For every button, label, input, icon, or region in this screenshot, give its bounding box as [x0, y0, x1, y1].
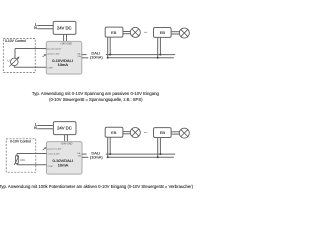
- svg-text:Typ. Anwendung mit 0-10V Spann: Typ. Anwendung mit 0-10V Spannung am pas…: [32, 91, 160, 96]
- svg-text:Typ. Anwendung mit 100k Potent: Typ. Anwendung mit 100k Potentiometer am…: [0, 184, 193, 189]
- svg-text:10mA: 10mA: [58, 62, 69, 67]
- svg-text:DA-: DA-: [78, 55, 82, 58]
- svg-text:+24V GND: +24V GND: [60, 42, 72, 45]
- svg-text:COM: COM: [48, 166, 53, 168]
- svg-text:EB: EB: [160, 30, 166, 35]
- svg-text:(0-10V Steuergerät = Spannungs: (0-10V Steuergerät = Spannungsquelle, z.…: [49, 97, 143, 102]
- svg-text:+24V GND: +24V GND: [61, 143, 73, 146]
- svg-text:0-10V Control: 0-10V Control: [10, 140, 31, 144]
- svg-text:EB: EB: [111, 30, 117, 35]
- svg-text:active 0-10V: active 0-10V: [47, 53, 60, 56]
- svg-text:100k: 100k: [20, 160, 26, 162]
- svg-text:passive 0-10V: passive 0-10V: [48, 149, 62, 151]
- svg-text:24V DC: 24V DC: [57, 126, 72, 131]
- svg-text:0-10V Control: 0-10V Control: [5, 39, 26, 43]
- svg-text:24V DC: 24V DC: [57, 26, 72, 31]
- svg-text:(10mA): (10mA): [90, 155, 103, 160]
- svg-text:COM: COM: [47, 67, 52, 69]
- svg-text:U: U: [8, 59, 10, 63]
- svg-text:passive 0-10V: passive 0-10V: [47, 49, 61, 51]
- svg-text:DA-: DA-: [78, 155, 82, 158]
- svg-text:active 0-10V: active 0-10V: [48, 152, 61, 155]
- svg-text:(10mA): (10mA): [90, 54, 103, 59]
- svg-text:EB: EB: [160, 130, 166, 135]
- svg-text:10mA: 10mA: [58, 162, 69, 167]
- svg-text:EB: EB: [111, 130, 117, 135]
